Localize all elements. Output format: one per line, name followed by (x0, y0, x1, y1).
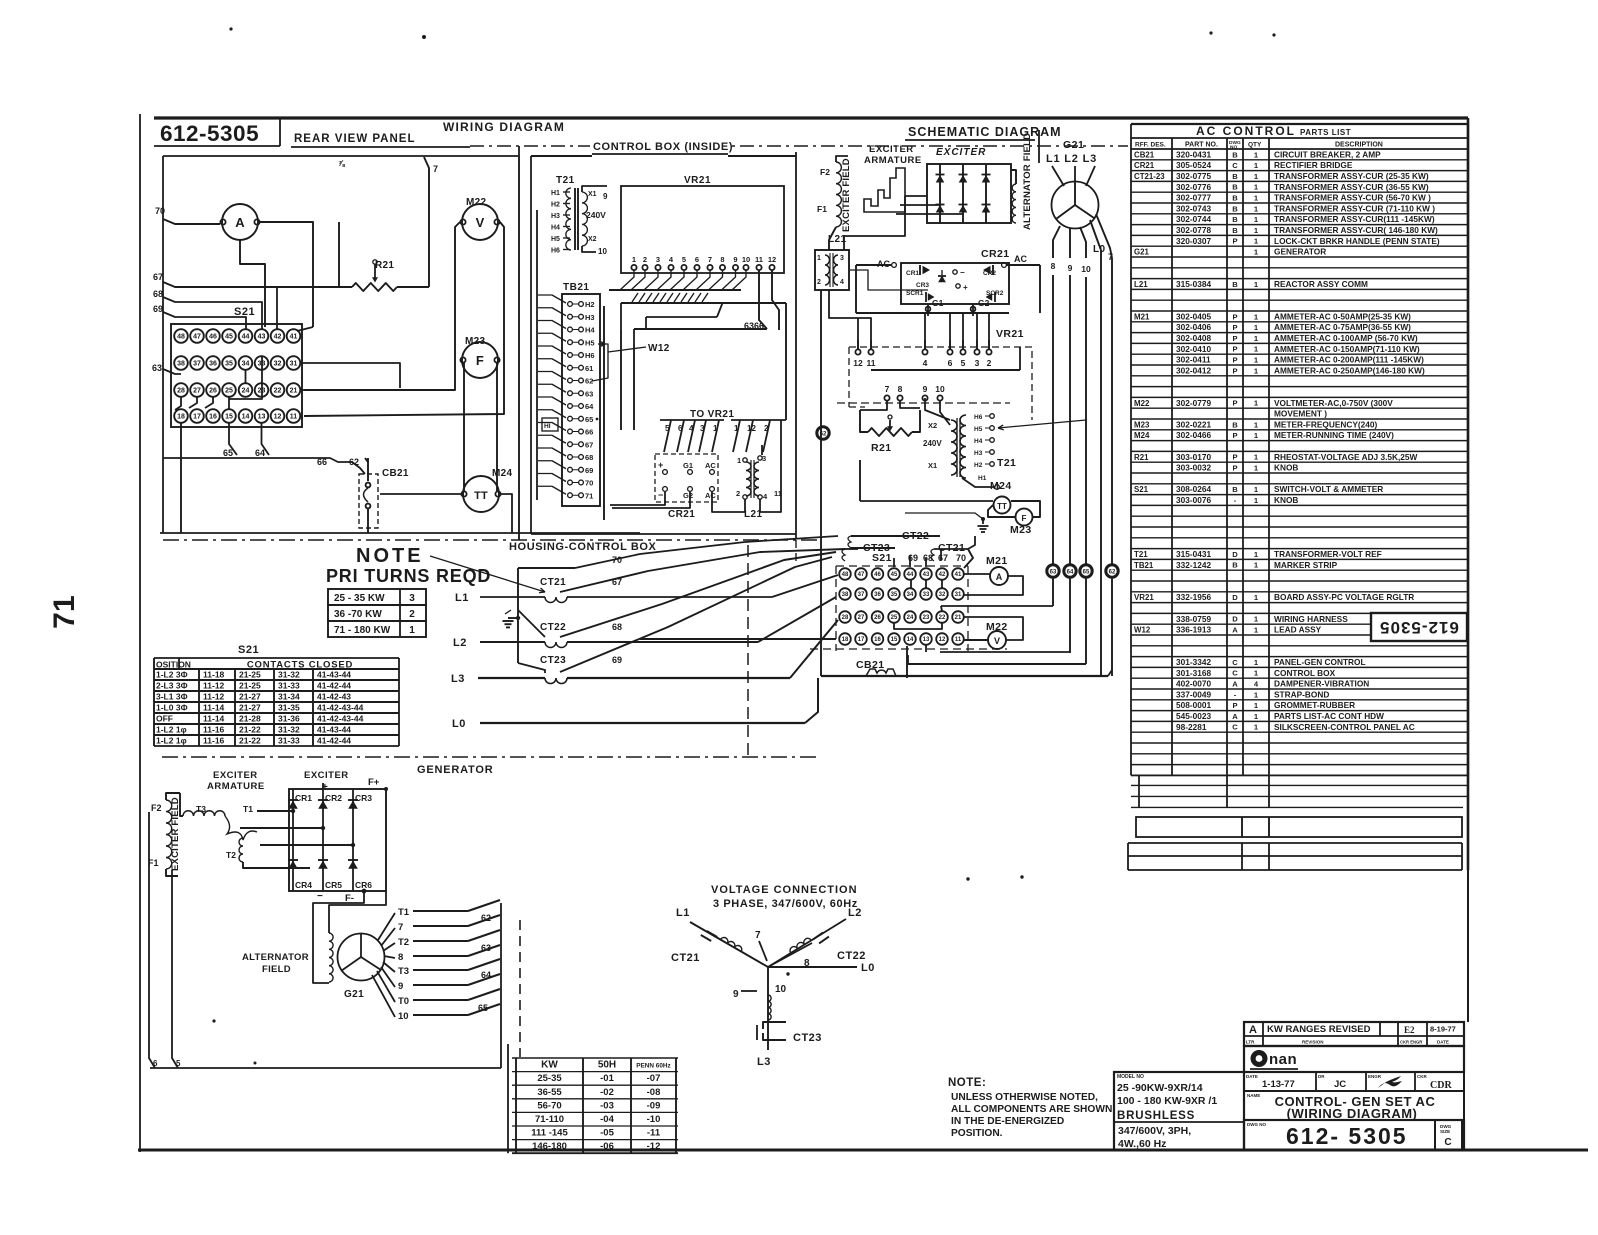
svg-text:50H: 50H (598, 1060, 616, 1071)
svg-text:68: 68 (923, 553, 933, 563)
svg-text:22: 22 (274, 388, 282, 395)
svg-text:DWG NO: DWG NO (1247, 1122, 1266, 1127)
svg-text:68: 68 (612, 622, 622, 632)
svg-text:TT: TT (474, 490, 488, 502)
svg-text:1-L2 1φ: 1-L2 1φ (156, 725, 187, 735)
svg-text:31-32: 31-32 (278, 670, 300, 680)
svg-text:24: 24 (242, 388, 250, 395)
svg-text:27: 27 (858, 615, 865, 621)
svg-text:CT21: CT21 (671, 952, 700, 964)
svg-text:17: 17 (193, 414, 201, 421)
svg-text:64: 64 (255, 448, 265, 458)
svg-text:65: 65 (223, 448, 233, 458)
svg-text:VR21: VR21 (684, 175, 711, 186)
svg-text:DAMPENER-VIBRATION: DAMPENER-VIBRATION (1274, 679, 1369, 689)
svg-text:CR21: CR21 (668, 509, 695, 520)
svg-text:SILKSCREEN-CONTROL PANEL AC: SILKSCREEN-CONTROL PANEL AC (1274, 722, 1415, 732)
svg-text:A: A (1249, 1024, 1257, 1036)
svg-text:(WIRING DIAGRAM): (WIRING DIAGRAM) (1287, 1106, 1418, 1121)
svg-text:TRANSFORMER ASSY-CUR(111 -145K: TRANSFORMER ASSY-CUR(111 -145KW) (1274, 214, 1435, 224)
svg-text:EXCITER: EXCITER (869, 144, 914, 155)
svg-text:35: 35 (225, 361, 233, 368)
svg-text:18: 18 (842, 637, 849, 643)
svg-text:RHEOSTAT-VOLTAGE ADJ 3.5K,25W: RHEOSTAT-VOLTAGE ADJ 3.5K,25W (1274, 452, 1418, 462)
svg-text:KW RANGES REVISED: KW RANGES REVISED (1267, 1024, 1371, 1035)
svg-text:27: 27 (193, 388, 201, 395)
svg-text:BRUSHLESS: BRUSHLESS (1117, 1110, 1195, 1122)
svg-text:70: 70 (956, 553, 966, 563)
svg-text:-12: -12 (647, 1141, 661, 1152)
svg-text:45: 45 (225, 334, 233, 341)
svg-text:H2: H2 (974, 462, 983, 469)
svg-text:NOTE:: NOTE: (948, 1077, 986, 1089)
svg-text:65: 65 (478, 1003, 488, 1013)
svg-text:31-35: 31-35 (278, 703, 300, 713)
svg-text:3: 3 (975, 358, 980, 368)
svg-text:F2: F2 (820, 167, 830, 177)
svg-text:18: 18 (177, 414, 185, 421)
svg-text:12: 12 (274, 414, 282, 421)
svg-text:DATE: DATE (1437, 1040, 1449, 1045)
svg-text:TB21: TB21 (563, 282, 589, 293)
svg-text:10: 10 (398, 1011, 409, 1022)
svg-text:C: C (1232, 658, 1238, 667)
svg-text:21-27: 21-27 (239, 692, 261, 702)
svg-text:70: 70 (585, 479, 593, 488)
svg-text:71: 71 (585, 491, 593, 500)
svg-text:11: 11 (290, 414, 298, 421)
svg-text:P: P (1232, 701, 1237, 710)
svg-text:4W.,60 Hz: 4W.,60 Hz (1118, 1138, 1166, 1150)
svg-text:nan: nan (1269, 1051, 1297, 1068)
svg-text:21-25: 21-25 (239, 670, 261, 680)
svg-text:146-180: 146-180 (532, 1141, 567, 1152)
svg-text:7: 7 (398, 922, 403, 933)
svg-text:R21: R21 (871, 442, 891, 454)
svg-text:P: P (1232, 464, 1237, 473)
svg-text:X2: X2 (588, 236, 597, 243)
svg-text:KNOB: KNOB (1274, 463, 1298, 473)
svg-text:302-0405: 302-0405 (1176, 311, 1211, 321)
svg-text:CB21: CB21 (382, 468, 409, 479)
svg-text:23: 23 (923, 615, 930, 621)
svg-text:26: 26 (874, 615, 881, 621)
svg-text:62: 62 (1109, 570, 1116, 576)
svg-text:302-0408: 302-0408 (1176, 333, 1211, 343)
svg-text:CR4: CR4 (295, 880, 312, 890)
svg-text:L1: L1 (455, 592, 469, 604)
svg-text:8: 8 (1051, 261, 1056, 271)
svg-text:10: 10 (775, 984, 787, 995)
svg-text:41-42-43: 41-42-43 (317, 692, 351, 702)
svg-text:-10: -10 (647, 1114, 661, 1125)
svg-text:63: 63 (585, 389, 593, 398)
svg-text:67: 67 (938, 553, 948, 563)
svg-text:63: 63 (481, 943, 491, 953)
svg-text:NOTE: NOTE (356, 545, 424, 567)
svg-text:H6: H6 (585, 351, 595, 360)
svg-text:12: 12 (853, 358, 863, 368)
svg-text:AMMETER-AC 0-250AMP(146-180 KW: AMMETER-AC 0-250AMP(146-180 KW) (1274, 365, 1425, 375)
svg-text:25-35: 25-35 (537, 1073, 562, 1084)
svg-text:LTR: LTR (1246, 1040, 1255, 1045)
svg-text:41-43-44: 41-43-44 (317, 670, 351, 680)
svg-text:VR21: VR21 (1134, 593, 1154, 602)
svg-text:34: 34 (907, 592, 914, 598)
svg-text:402-0070: 402-0070 (1176, 679, 1211, 689)
svg-text:TRANSFORMER ASSY-CUR (56-70 KW: TRANSFORMER ASSY-CUR (56-70 KW ) (1274, 193, 1431, 203)
svg-text:8: 8 (398, 952, 403, 963)
svg-text:42: 42 (274, 334, 282, 341)
svg-text:D: D (1232, 615, 1238, 624)
svg-text:SIZE: SIZE (1440, 1129, 1450, 1134)
svg-text:8-19-77: 8-19-77 (1430, 1025, 1456, 1034)
svg-text:67: 67 (153, 272, 163, 282)
svg-text:332-1956: 332-1956 (1176, 592, 1211, 602)
svg-text:CDR: CDR (1430, 1080, 1452, 1091)
svg-text:11-16: 11-16 (203, 736, 225, 746)
svg-text:64: 64 (1067, 570, 1074, 576)
svg-text:SCR1: SCR1 (906, 290, 924, 297)
svg-text:31-34: 31-34 (278, 692, 300, 702)
svg-text:H3: H3 (585, 313, 595, 322)
svg-text:SWITCH-VOLT & AMMETER: SWITCH-VOLT & AMMETER (1274, 484, 1383, 494)
svg-text:347/600V, 3PH,: 347/600V, 3PH, (1118, 1125, 1191, 1137)
svg-text:45: 45 (891, 572, 898, 578)
svg-text:12: 12 (939, 637, 946, 643)
svg-text:AMMETER-AC 0-150AMP(71-110 KW): AMMETER-AC 0-150AMP(71-110 KW) (1274, 344, 1420, 354)
svg-text:21: 21 (955, 615, 962, 621)
svg-text:14: 14 (242, 414, 250, 421)
svg-text:GENERATOR: GENERATOR (417, 764, 493, 776)
svg-text:H2: H2 (551, 202, 560, 209)
svg-text:FIELD: FIELD (262, 964, 291, 975)
svg-text:G1: G1 (932, 298, 944, 308)
svg-text:ENGR: ENGR (1368, 1074, 1382, 1079)
svg-text:5: 5 (961, 358, 966, 368)
svg-text:CR1: CR1 (295, 793, 312, 803)
svg-text:D: D (1232, 593, 1238, 602)
svg-text:L3: L3 (757, 1056, 771, 1068)
svg-text:320-0431: 320-0431 (1176, 149, 1211, 159)
svg-text:F1: F1 (817, 204, 827, 214)
svg-text:38: 38 (842, 592, 849, 598)
svg-text:G1: G1 (683, 461, 693, 470)
svg-text:S21: S21 (234, 306, 255, 318)
svg-text:2: 2 (736, 489, 740, 498)
svg-text:14: 14 (907, 637, 914, 643)
svg-text:15: 15 (225, 414, 233, 421)
svg-text:VR21: VR21 (996, 328, 1024, 340)
svg-text:21-28: 21-28 (239, 714, 261, 724)
svg-text:−: − (658, 490, 663, 500)
svg-text:HOUSING-CONTROL BOX: HOUSING-CONTROL BOX (509, 541, 657, 553)
svg-text:PRI TURNS REQD: PRI TURNS REQD (326, 566, 491, 586)
svg-text:240V: 240V (586, 210, 606, 220)
svg-text:P: P (1232, 334, 1237, 343)
svg-text:332-1242: 332-1242 (1176, 560, 1211, 570)
svg-text:CIRCUIT BREAKER, 2 AMP: CIRCUIT BREAKER, 2 AMP (1274, 149, 1381, 159)
svg-text:-09: -09 (647, 1100, 661, 1111)
svg-text:ARMATURE: ARMATURE (207, 781, 265, 792)
svg-text:+: + (658, 460, 663, 470)
svg-text:37: 37 (858, 592, 865, 598)
svg-text:68: 68 (585, 453, 593, 462)
svg-text:WIRING DIAGRAM: WIRING DIAGRAM (443, 120, 565, 134)
svg-text:C: C (1232, 669, 1238, 678)
svg-text:11-14: 11-14 (203, 703, 225, 713)
svg-text:MOVEMENT ): MOVEMENT ) (1274, 409, 1327, 419)
svg-text:31-33: 31-33 (278, 681, 300, 691)
svg-text:7: 7 (755, 930, 761, 941)
svg-text:21: 21 (290, 388, 298, 395)
svg-text:EXCITER: EXCITER (213, 770, 258, 781)
svg-text:LEAD ASSY: LEAD ASSY (1274, 625, 1322, 635)
svg-text:ALTERNATOR: ALTERNATOR (242, 952, 309, 963)
svg-text:16: 16 (209, 414, 217, 421)
svg-text:T1: T1 (243, 804, 253, 814)
svg-text:303-0170: 303-0170 (1176, 452, 1211, 462)
svg-text:100 - 180 KW-9XR /1: 100 - 180 KW-9XR /1 (1117, 1095, 1217, 1107)
svg-text:-01: -01 (600, 1073, 614, 1084)
svg-text:B: B (1232, 561, 1238, 570)
svg-text:22: 22 (939, 615, 946, 621)
svg-text:69: 69 (612, 655, 622, 665)
svg-text:6: 6 (153, 1059, 158, 1068)
svg-text:G21: G21 (1063, 139, 1084, 151)
svg-text:S21: S21 (238, 644, 259, 656)
svg-text:12: 12 (768, 255, 776, 264)
svg-text:63: 63 (152, 363, 162, 373)
svg-text:P: P (1232, 431, 1237, 440)
svg-text:H5: H5 (585, 338, 595, 347)
svg-text:TT: TT (997, 502, 1007, 511)
svg-text:CR6: CR6 (355, 880, 372, 890)
svg-text:H4: H4 (585, 326, 595, 335)
svg-text:3: 3 (409, 593, 415, 604)
svg-text:TRANSFORMER ASSY-CUR (25-35 KW: TRANSFORMER ASSY-CUR (25-35 KW) (1274, 171, 1429, 181)
svg-text:320-0307: 320-0307 (1176, 236, 1211, 246)
svg-text:P: P (1232, 366, 1237, 375)
svg-text:-07: -07 (647, 1073, 661, 1084)
svg-text:B: B (1232, 204, 1238, 213)
svg-text:AMMETER-AC 0-100AMP (56-70 KW): AMMETER-AC 0-100AMP (56-70 KW) (1274, 333, 1418, 343)
svg-text:38: 38 (177, 361, 185, 368)
svg-text:PARTS LIST: PARTS LIST (1300, 128, 1351, 137)
svg-text:25 - 35 KW: 25 - 35 KW (334, 593, 385, 604)
svg-text:L3: L3 (451, 673, 465, 685)
svg-text:13: 13 (258, 414, 266, 421)
svg-text:48: 48 (177, 334, 185, 341)
svg-text:RECTIFIER BRIDGE: RECTIFIER BRIDGE (1274, 160, 1353, 170)
svg-text:M24: M24 (990, 480, 1012, 492)
svg-text:EXCITER: EXCITER (304, 770, 349, 781)
svg-text:CKR ENGR: CKR ENGR (1400, 1040, 1422, 1045)
svg-text:GROMMET-RUBBER: GROMMET-RUBBER (1274, 700, 1355, 710)
svg-text:AC: AC (705, 491, 716, 500)
svg-text:28: 28 (842, 615, 849, 621)
svg-text:IN THE DE-ENERGIZED: IN THE DE-ENERGIZED (951, 1116, 1064, 1127)
svg-text:C: C (1444, 1137, 1451, 1148)
svg-text:UNLESS OTHERWISE NOTED,: UNLESS OTHERWISE NOTED, (951, 1092, 1098, 1103)
svg-text:POSITION.: POSITION. (951, 1128, 1003, 1139)
svg-text:P: P (1232, 356, 1237, 365)
svg-text:-06: -06 (600, 1141, 614, 1152)
svg-text:STRAP-BOND: STRAP-BOND (1274, 689, 1329, 699)
svg-text:9: 9 (733, 255, 737, 264)
svg-text:13: 13 (923, 637, 930, 643)
svg-text:98-2281: 98-2281 (1176, 722, 1207, 732)
svg-text:G21: G21 (1134, 248, 1150, 257)
svg-text:65: 65 (1083, 570, 1090, 576)
svg-text:41-43-44: 41-43-44 (317, 725, 351, 735)
svg-text:41-42-43-44: 41-42-43-44 (317, 714, 364, 724)
svg-text:67: 67 (585, 440, 593, 449)
svg-text:33: 33 (923, 592, 930, 598)
svg-text:10: 10 (742, 255, 750, 264)
svg-text:AC: AC (877, 259, 890, 269)
svg-text:VOLTAGE CONNECTION: VOLTAGE CONNECTION (711, 884, 858, 896)
svg-text:H4: H4 (551, 225, 560, 232)
svg-text:302-0221: 302-0221 (1176, 419, 1211, 429)
svg-text:612- 5305: 612- 5305 (1286, 1123, 1408, 1149)
svg-text:301-3342: 301-3342 (1176, 657, 1211, 667)
svg-text:545-0023: 545-0023 (1176, 711, 1211, 721)
svg-text:337-0049: 337-0049 (1176, 689, 1211, 699)
svg-text:L21: L21 (1134, 280, 1148, 289)
svg-text:2: 2 (409, 609, 415, 620)
svg-text:315-0431: 315-0431 (1176, 549, 1211, 559)
svg-text:H6: H6 (551, 248, 560, 255)
svg-text:1-L2 3Φ: 1-L2 3Φ (156, 670, 188, 680)
svg-text:44: 44 (907, 572, 914, 578)
svg-text:5: 5 (682, 255, 686, 264)
svg-text:VOLTMETER-AC,0-750V (300V: VOLTMETER-AC,0-750V (300V (1274, 398, 1393, 408)
svg-text:PANEL-GEN CONTROL: PANEL-GEN CONTROL (1274, 657, 1366, 667)
svg-text:42: 42 (939, 572, 946, 578)
svg-text:M23: M23 (1134, 420, 1150, 429)
svg-text:CONTROL BOX (INSIDE): CONTROL BOX (INSIDE) (593, 141, 733, 153)
svg-text:16: 16 (874, 637, 881, 643)
svg-text:OSITION: OSITION (156, 660, 191, 670)
svg-text:302-0777: 302-0777 (1176, 193, 1211, 203)
svg-text:1: 1 (817, 255, 821, 262)
svg-text:35: 35 (891, 592, 898, 598)
svg-text:9: 9 (1068, 263, 1073, 273)
svg-text:24: 24 (907, 615, 914, 621)
svg-text:−: − (960, 268, 965, 277)
svg-text:L0: L0 (452, 718, 466, 730)
svg-text:H5: H5 (551, 236, 560, 243)
svg-text:36: 36 (874, 592, 881, 598)
svg-text:10: 10 (935, 384, 945, 394)
svg-text:11: 11 (867, 358, 876, 368)
svg-text:DR: DR (1318, 1074, 1325, 1079)
svg-text:302-0411: 302-0411 (1176, 355, 1211, 365)
svg-text:25: 25 (891, 615, 898, 621)
svg-text:C: C (1232, 723, 1238, 732)
svg-text:31-32: 31-32 (278, 725, 300, 735)
svg-text:68: 68 (153, 289, 163, 299)
svg-text:H1: H1 (551, 190, 560, 197)
svg-text:CT22: CT22 (837, 950, 866, 962)
svg-text:B: B (1232, 215, 1238, 224)
svg-text:48: 48 (842, 572, 849, 578)
svg-text:43: 43 (923, 572, 930, 578)
svg-text:H3: H3 (551, 213, 560, 220)
svg-text:36 -70 KW: 36 -70 KW (334, 609, 382, 620)
svg-text:F2: F2 (151, 803, 162, 813)
svg-text:G2: G2 (683, 491, 693, 500)
svg-text:315-0384: 315-0384 (1176, 279, 1211, 289)
svg-text:AC: AC (1014, 254, 1027, 264)
svg-text:61: 61 (585, 364, 593, 373)
svg-text:CR2: CR2 (983, 270, 996, 277)
svg-text:4: 4 (840, 279, 844, 286)
svg-text:15: 15 (891, 637, 898, 643)
svg-text:TRANSFORMER ASSY-CUR (36-55 KW: TRANSFORMER ASSY-CUR (36-55 KW) (1274, 182, 1429, 192)
svg-text:B: B (1232, 172, 1238, 181)
svg-text:A: A (996, 572, 1003, 582)
svg-text:T2: T2 (398, 937, 409, 948)
svg-text:31: 31 (290, 361, 298, 368)
svg-text:64: 64 (481, 970, 491, 980)
svg-text:47: 47 (193, 334, 201, 341)
svg-text:25 -90KW-9XR/14: 25 -90KW-9XR/14 (1117, 1082, 1203, 1094)
svg-text:M21: M21 (1134, 312, 1150, 321)
svg-text:9: 9 (923, 384, 928, 394)
svg-text:F+: F+ (368, 777, 380, 788)
svg-text:MARKER STRIP: MARKER STRIP (1274, 560, 1338, 570)
svg-text:302-0743: 302-0743 (1176, 203, 1211, 213)
svg-text:F: F (1022, 514, 1027, 523)
svg-text:47: 47 (858, 572, 865, 578)
svg-text:3: 3 (840, 255, 844, 262)
svg-text:8: 8 (898, 384, 903, 394)
svg-text:KNOB: KNOB (1274, 495, 1298, 505)
svg-text:612-5305: 612-5305 (160, 121, 259, 146)
svg-text:21-25: 21-25 (239, 681, 261, 691)
svg-text:CONTROL BOX: CONTROL BOX (1274, 668, 1336, 678)
svg-text:CR5: CR5 (325, 880, 342, 890)
svg-text:69: 69 (153, 304, 163, 314)
svg-text:M22: M22 (466, 197, 486, 208)
svg-text:7: 7 (885, 384, 890, 394)
svg-text:3: 3 (762, 454, 766, 463)
svg-text:AMMETER-AC 0-50AMP(25-35 KW): AMMETER-AC 0-50AMP(25-35 KW) (1274, 311, 1411, 321)
svg-text:AC: AC (705, 461, 716, 470)
svg-text:EXCITER: EXCITER (936, 147, 986, 158)
svg-text:M22: M22 (1134, 399, 1150, 408)
svg-text:L0: L0 (861, 962, 875, 974)
svg-text:44: 44 (242, 334, 250, 341)
svg-text:-05: -05 (600, 1128, 614, 1139)
svg-text:L2: L2 (453, 637, 467, 649)
svg-text:W12: W12 (1134, 626, 1151, 635)
svg-text:TRANSFORMER ASSY-CUR( 146-180: TRANSFORMER ASSY-CUR( 146-180 KW) (1274, 225, 1438, 235)
svg-text:T3: T3 (196, 804, 206, 814)
svg-text:6: 6 (948, 358, 953, 368)
svg-text:17: 17 (858, 637, 865, 643)
svg-text:302-0775: 302-0775 (1176, 171, 1211, 181)
svg-text:+: + (963, 283, 968, 292)
svg-text:3: 3 (656, 255, 660, 264)
svg-text:10: 10 (1081, 264, 1091, 274)
svg-text:41-42-44: 41-42-44 (317, 681, 351, 691)
svg-text:HI: HI (544, 423, 551, 430)
svg-text:62: 62 (481, 913, 491, 923)
svg-text:TB21: TB21 (1134, 561, 1154, 570)
